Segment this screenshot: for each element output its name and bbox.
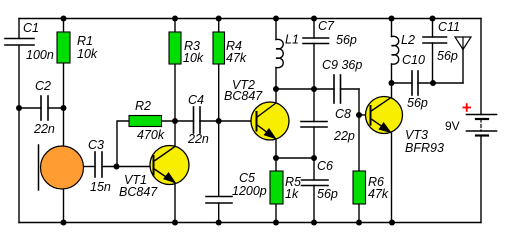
svg-text:BFR93: BFR93 [405,141,444,155]
svg-text:C10: C10 [402,53,425,67]
svg-text:R2: R2 [135,99,151,113]
svg-text:C2: C2 [35,79,51,93]
svg-text:C6: C6 [317,159,333,173]
svg-text:BC847: BC847 [119,185,158,199]
svg-text:C11: C11 [438,20,460,34]
svg-text:10k: 10k [183,51,204,65]
svg-text:C5: C5 [239,171,255,185]
svg-text:C8: C8 [335,107,351,121]
svg-text:56p: 56p [407,96,428,110]
svg-text:C4: C4 [188,93,204,107]
svg-text:C1: C1 [23,21,39,35]
svg-text:56p: 56p [437,49,458,63]
svg-text:100n: 100n [26,48,54,62]
svg-text:L1: L1 [285,33,299,47]
svg-text:L2: L2 [401,33,415,47]
svg-text:C7: C7 [318,19,335,33]
svg-text:22n: 22n [187,132,209,146]
svg-text:9V: 9V [445,119,460,133]
svg-text:R1: R1 [77,34,93,48]
svg-text:10k: 10k [77,47,98,61]
svg-text:VT3: VT3 [405,128,428,142]
svg-text:1k: 1k [285,187,299,201]
svg-text:15n: 15n [90,180,111,194]
svg-text:56p: 56p [317,187,338,201]
svg-text:56p: 56p [336,33,357,47]
svg-text:47k: 47k [368,187,389,201]
svg-text:47k: 47k [226,51,247,65]
svg-text:C9 36p: C9 36p [322,58,362,72]
svg-text:22n: 22n [33,122,55,136]
svg-text:BC847: BC847 [224,89,263,103]
svg-text:470k: 470k [137,128,165,142]
svg-text:C3: C3 [88,138,104,152]
svg-text:22p: 22p [333,129,355,143]
svg-text:1200p: 1200p [232,184,267,198]
